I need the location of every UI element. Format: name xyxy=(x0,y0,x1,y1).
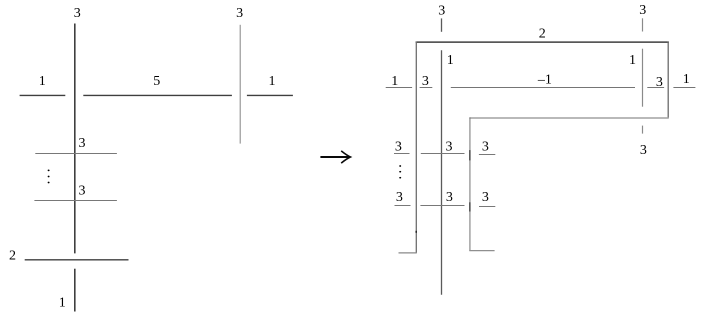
wire row 1 col 1 line xyxy=(394,153,410,155)
wire row 2 col 1 line xyxy=(395,205,411,207)
svg-text:5: 5 xyxy=(153,74,160,89)
svg-text:3: 3 xyxy=(639,3,646,18)
wire -1 row right-inside segment xyxy=(647,87,664,89)
svg-text:1: 1 xyxy=(391,74,398,89)
wire second vertical xyxy=(239,25,241,144)
junction tick row 2 on corner vertical xyxy=(469,202,471,211)
wire row 2 col 2 line xyxy=(420,205,464,207)
svg-text:1: 1 xyxy=(39,74,46,89)
wire inner-left vertical main xyxy=(441,50,443,295)
svg-text:3: 3 xyxy=(74,6,81,21)
wire main vertical lower segment xyxy=(74,269,76,312)
junction tick on left outline vertical xyxy=(415,231,417,233)
svg-text:3: 3 xyxy=(79,136,86,151)
svg-text:1: 1 xyxy=(269,74,276,89)
svg-text:1: 1 xyxy=(629,53,636,68)
svg-text:3: 3 xyxy=(236,6,243,21)
wire row 2 col 3 line xyxy=(479,206,495,208)
wire inner-right vertical main xyxy=(642,49,644,107)
junction dot at band-bottom corner xyxy=(469,117,471,119)
wire outline left vertical xyxy=(415,42,417,253)
arrow head xyxy=(341,151,350,163)
svg-text:3: 3 xyxy=(482,190,489,205)
wire row 1 col 3 line xyxy=(479,154,495,156)
svg-text:3: 3 xyxy=(640,143,647,158)
wire main horizontal middle segment xyxy=(83,94,232,96)
wire -1 row far-right segment xyxy=(673,87,695,89)
wire inner-right vertical top dash xyxy=(642,18,644,31)
svg-text:–1: –1 xyxy=(537,72,552,87)
wire row 1 line xyxy=(35,153,117,155)
wire main horizontal right segment xyxy=(247,94,293,96)
wire row 1 col 2 line xyxy=(421,153,465,155)
wire outline right vertical xyxy=(667,42,669,118)
wire main vertical upper segment xyxy=(74,24,76,254)
junction tick row 1 on corner vertical xyxy=(469,150,471,160)
wire bottom horizontal line xyxy=(25,259,129,261)
wire main horizontal left segment xyxy=(20,94,66,96)
svg-text:3: 3 xyxy=(482,139,489,154)
svg-text:3: 3 xyxy=(446,190,453,205)
svg-text:3: 3 xyxy=(395,139,402,154)
wire outline band bottom xyxy=(470,117,669,119)
svg-text:1: 1 xyxy=(59,296,66,311)
wire -1 row left-inside segment xyxy=(420,87,433,89)
arrow shaft xyxy=(320,156,349,158)
wire outline bottom-right hook xyxy=(469,250,494,252)
svg-text:3: 3 xyxy=(396,190,403,205)
wire outline bottom-left hook xyxy=(399,252,417,254)
wire inner-right vertical bottom dash xyxy=(642,126,644,134)
wire -1 row far-left segment xyxy=(386,87,412,89)
vertical dots xyxy=(48,170,50,172)
wire outline top band xyxy=(416,41,669,43)
svg-text:2: 2 xyxy=(9,249,16,264)
svg-text:3: 3 xyxy=(79,184,86,199)
vertical dots (right figure) xyxy=(399,165,401,167)
svg-text:3: 3 xyxy=(422,74,429,89)
wire outline corner vertical xyxy=(469,117,471,250)
svg-text:1: 1 xyxy=(447,53,454,68)
svg-text:2: 2 xyxy=(539,27,546,42)
wire inner-left vertical top dash xyxy=(441,18,443,31)
svg-text:1: 1 xyxy=(683,72,690,87)
wire -1 row long segment xyxy=(451,87,635,89)
svg-text:3: 3 xyxy=(446,139,453,154)
svg-text:3: 3 xyxy=(438,4,445,19)
wire row 2 line xyxy=(34,200,117,202)
